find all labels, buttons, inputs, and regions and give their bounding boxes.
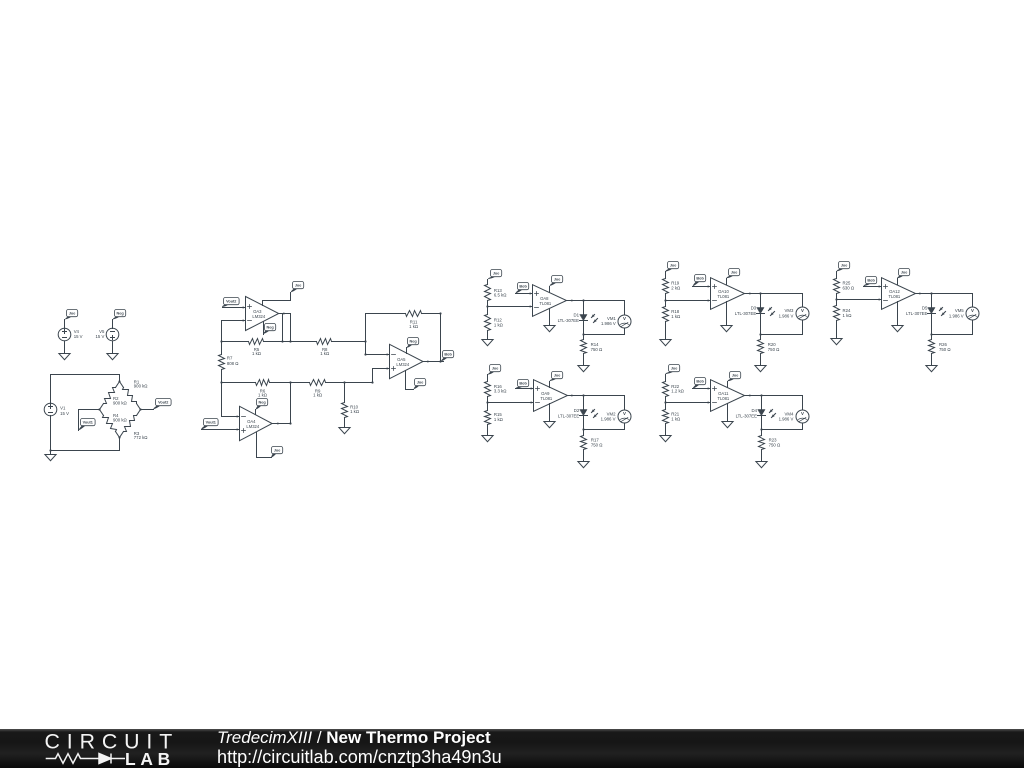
svg-text:LAB: LAB xyxy=(125,749,175,768)
ground below R24 xyxy=(831,339,842,345)
resistor R8 (1 kΩ) xyxy=(291,339,366,357)
voltmeter VM3 (1.986 V) xyxy=(761,294,810,335)
svg-text:Joe: Joe xyxy=(274,449,281,453)
wire OA11 output xyxy=(745,394,803,396)
svg-text:Bob: Bob xyxy=(444,353,452,357)
ground below OA12 xyxy=(892,326,903,332)
svg-text:750 Ω: 750 Ω xyxy=(591,443,603,448)
ground below V5 xyxy=(107,354,118,360)
svg-text:Neg: Neg xyxy=(117,312,125,316)
svg-text:772 kΩ: 772 kΩ xyxy=(134,435,149,440)
net flag Joe on R13 xyxy=(488,270,502,280)
svg-text:Joe: Joe xyxy=(417,381,424,385)
svg-text:TL081: TL081 xyxy=(717,396,730,401)
op-amp OA10 (TL081) xyxy=(711,278,745,310)
svg-text:LM324: LM324 xyxy=(396,362,409,367)
resistor R13 (6.5 k&#937;) xyxy=(485,280,508,307)
svg-text:Joe: Joe xyxy=(841,264,848,268)
svg-text:TL081: TL081 xyxy=(717,294,730,299)
voltage source V1 (15 V) xyxy=(44,403,69,416)
power stub OA3 top xyxy=(262,301,264,306)
op-amp OA4 (LM324) xyxy=(240,406,273,440)
wire node to OA10 - input xyxy=(666,299,711,301)
resistor R22 (1.2 k&#937;) xyxy=(663,375,685,403)
svg-text:1.986 V: 1.986 V xyxy=(779,313,794,318)
power stub OA10 top xyxy=(726,279,728,285)
svg-text:Bob: Bob xyxy=(696,277,704,281)
svg-text:1.986 V: 1.986 V xyxy=(601,417,616,422)
svg-text:Neg: Neg xyxy=(410,340,418,344)
svg-text:LTL-307EE: LTL-307EE xyxy=(735,311,757,316)
wire V5 to ground xyxy=(112,342,114,354)
svg-text:1 kΩ: 1 kΩ xyxy=(252,351,262,356)
net flag Vout1 into OA4 xyxy=(201,419,218,430)
ground below R26 xyxy=(926,366,937,372)
resistor R19 (2 k&#937;) xyxy=(663,272,682,301)
resistor R4 (900 kΩ, bridge bottom-left) xyxy=(100,410,128,438)
svg-text:V: V xyxy=(623,316,626,321)
wire Bob flag to OA9 + input xyxy=(516,387,534,389)
resistor R25 (630 &#937;) xyxy=(834,272,855,300)
svg-text:900 kΩ: 900 kΩ xyxy=(134,384,149,389)
resistor R16 (3.3 k&#937;) xyxy=(485,375,508,403)
wire Joe flag to OA3 V+ xyxy=(263,293,291,301)
svg-text:630 Ω: 630 Ω xyxy=(843,285,855,290)
net flag Bob on OA8 xyxy=(516,283,529,294)
logo resistor-diode symbol xyxy=(46,754,125,764)
wire Vout2 to OA3 + input xyxy=(223,306,246,308)
wire Bob flag to OA11 + input xyxy=(693,387,711,389)
ground below V1 xyxy=(45,455,56,461)
svg-text:LTL-307EE: LTL-307EE xyxy=(558,318,580,323)
svg-text:1 kΩ: 1 kΩ xyxy=(258,393,268,398)
svg-text:V: V xyxy=(623,411,626,416)
ground below R12 xyxy=(482,340,493,346)
net flag Bob on OA9 xyxy=(516,380,529,389)
wire OA8 output xyxy=(567,299,625,301)
net flag Vout1 on bridge xyxy=(79,419,95,431)
wire OA9 output xyxy=(568,394,625,396)
svg-text:D2: D2 xyxy=(574,408,580,413)
svg-text:Vout2: Vout2 xyxy=(226,300,236,304)
wire R9 to OA5 + input xyxy=(345,367,390,382)
ground below OA10 xyxy=(721,326,732,332)
svg-text:Joe: Joe xyxy=(554,374,561,378)
svg-text:750 Ω: 750 Ω xyxy=(591,347,603,352)
svg-text:Joe: Joe xyxy=(492,367,499,371)
junctions on R5-R8 line xyxy=(220,340,366,342)
svg-text:LM324: LM324 xyxy=(252,314,265,319)
LED D3 (LTL-307EE) xyxy=(735,294,775,336)
resistor R18 (1 k&#937;) xyxy=(663,301,682,340)
svg-text:1.986 V: 1.986 V xyxy=(601,321,616,326)
svg-text:Joe: Joe xyxy=(670,264,677,268)
svg-text:Joe: Joe xyxy=(69,312,76,316)
wire V1 bottom to ground xyxy=(50,416,52,455)
net flag Joe on V4 xyxy=(65,310,78,320)
resistor R12 (1 k&#937;) xyxy=(485,307,504,340)
svg-text:1.2 kΩ: 1.2 kΩ xyxy=(671,389,684,394)
junctions at bridge vertices xyxy=(98,380,141,438)
net flag Vout2 into OA3 xyxy=(222,298,239,308)
junction R7 bottom xyxy=(220,381,222,383)
resistor R7 (808 Ω) xyxy=(219,342,240,383)
power stub OA9 top xyxy=(549,382,551,388)
wire node to OA8 - input xyxy=(488,305,533,307)
svg-text:TL081: TL081 xyxy=(539,301,552,306)
junction at V1 bottom xyxy=(49,449,51,451)
svg-text:Bob: Bob xyxy=(696,380,704,384)
svg-text:Joe: Joe xyxy=(901,271,908,275)
svg-text:15 V: 15 V xyxy=(60,411,69,416)
net flag Joe on R16 xyxy=(488,365,501,375)
net flag Joe on R25 xyxy=(837,262,850,272)
junction divider node R25/R24 xyxy=(835,298,837,300)
svg-text:1 kΩ: 1 kΩ xyxy=(350,409,360,414)
op-amp OA5 (LM324) xyxy=(390,344,424,378)
svg-text:1 kΩ: 1 kΩ xyxy=(671,314,681,319)
wire V4 to ground xyxy=(64,342,66,354)
power stub OA8 top xyxy=(549,287,551,293)
wire node to OA11 - input xyxy=(666,401,711,403)
resistor R2 (900 kΩ, bridge top-left) xyxy=(100,382,128,410)
CircuitLab logo wordmark xyxy=(44,729,244,768)
svg-text:1 kΩ: 1 kΩ xyxy=(494,417,504,422)
net flag Joe on OA8 xyxy=(550,276,563,287)
svg-text:Joe: Joe xyxy=(731,271,738,275)
wire Vout1 to OA4 + input xyxy=(202,428,240,430)
svg-text:808 Ω: 808 Ω xyxy=(227,361,239,366)
resistor R11 (1 kΩ) xyxy=(366,311,441,329)
junction divider node R19/R18 xyxy=(664,299,666,301)
ground below R17 xyxy=(578,462,589,468)
ground below R23 xyxy=(756,462,767,468)
wire R11 to OA5 output xyxy=(439,312,441,362)
svg-text:LTL-307EE: LTL-307EE xyxy=(736,413,758,418)
resistor R26 (750 &#937;) xyxy=(929,335,952,366)
wire bridge left to Vout1 flag xyxy=(79,410,100,431)
svg-text:D4: D4 xyxy=(752,408,758,413)
resistor R20 (750 &#937;) xyxy=(758,335,781,366)
svg-text:Neg: Neg xyxy=(259,401,267,405)
voltmeter VM1 (1.986 V) xyxy=(584,301,632,335)
LED D5 (LTL-307EE) xyxy=(906,294,946,336)
wire OA5 V- to Joe flag xyxy=(406,371,414,390)
junction divider node R13/R12 xyxy=(486,305,488,307)
ground below OA11 xyxy=(722,422,733,428)
svg-text:LTL-307EE: LTL-307EE xyxy=(558,413,580,418)
net flag Bob on OA12 xyxy=(864,277,877,287)
net flag Bob on OA10 xyxy=(693,275,706,287)
junctions on R6-R9 line xyxy=(289,381,373,383)
resistor R9 (1 kΩ) xyxy=(291,380,345,398)
LED D2 (LTL-307EE) xyxy=(558,396,598,431)
svg-text:Bob: Bob xyxy=(867,279,875,283)
wire feedback vertical to OA5 - input xyxy=(364,314,389,356)
svg-text:V: V xyxy=(801,411,804,416)
net flag Joe on OA4 xyxy=(271,447,283,458)
net flag Joe on OA11 xyxy=(728,372,741,382)
svg-text:2 kΩ: 2 kΩ xyxy=(671,285,681,290)
svg-text:1 kΩ: 1 kΩ xyxy=(843,313,853,318)
resistor R15 (1 k&#937;) xyxy=(485,403,504,436)
ground below R20 xyxy=(755,366,766,372)
svg-text:Bob: Bob xyxy=(519,382,527,386)
resistor R24 (1 k&#937;) xyxy=(834,300,853,339)
net flag Joe on OA3 xyxy=(291,282,304,293)
wire OA12 V- to ground xyxy=(897,302,899,326)
svg-text:3.3 kΩ: 3.3 kΩ xyxy=(494,389,507,394)
svg-text:V: V xyxy=(971,308,974,313)
svg-text:Vout2: Vout2 xyxy=(158,401,168,405)
svg-text:1 kΩ: 1 kΩ xyxy=(320,351,330,356)
wire bridge bottom to V1 xyxy=(51,438,120,451)
resistor R14 (750 &#937;) xyxy=(581,335,603,366)
svg-text:TL081: TL081 xyxy=(540,396,553,401)
ground below R18 xyxy=(660,340,671,346)
wire OA3 output to R8 node xyxy=(290,314,292,342)
svg-text:750 Ω: 750 Ω xyxy=(768,347,780,352)
svg-text:1.986 V: 1.986 V xyxy=(779,417,794,422)
svg-text:15 V: 15 V xyxy=(96,334,105,339)
wire OA5 output xyxy=(423,360,444,362)
wire OA3 - input xyxy=(222,319,246,341)
wire OA12 output xyxy=(916,292,973,294)
wire Bob flag to OA10 + input xyxy=(693,285,711,287)
ground below R15 xyxy=(482,436,493,442)
power stub OA11 top xyxy=(727,382,729,388)
svg-text:Joe: Joe xyxy=(493,272,500,276)
net flag Joe on OA12 xyxy=(897,269,910,279)
wire V1 top to bridge top xyxy=(51,375,120,404)
wire OA4 - input xyxy=(222,383,240,418)
net flag Neg on V5 xyxy=(113,310,126,320)
svg-text:Joe: Joe xyxy=(732,374,739,378)
svg-text:750 Ω: 750 Ω xyxy=(939,347,951,352)
op-amp OA3 (LM324) xyxy=(246,297,279,331)
svg-text:Bob: Bob xyxy=(519,285,527,289)
resistor R3 (772 kΩ, bridge bottom-right) xyxy=(120,410,149,441)
op-amp OA12 (TL081) xyxy=(882,278,916,310)
svg-text:Joe: Joe xyxy=(554,278,561,282)
net flag Joe on OA10 xyxy=(726,269,739,279)
resistor R23 (750 &#937;) xyxy=(759,430,781,462)
svg-text:900 kΩ: 900 kΩ xyxy=(113,418,128,423)
resistor R10 (1 kΩ) xyxy=(342,383,360,428)
wire bridge right to Vout2 flag xyxy=(141,409,154,411)
net flag Neg on OA3 xyxy=(263,324,276,335)
wire OA10 output xyxy=(745,292,803,294)
power stub OA3 bottom xyxy=(263,322,265,335)
ground below R14 xyxy=(578,366,589,372)
ground below V4 xyxy=(59,354,70,360)
svg-text:Joe: Joe xyxy=(295,284,302,288)
net flag Vout2 on bridge xyxy=(153,399,171,410)
ground below R10 xyxy=(339,428,350,434)
wire OA10 V- to ground xyxy=(726,302,728,326)
footer title text xyxy=(217,728,502,767)
wire OA11 V- to ground xyxy=(727,404,729,422)
resistor R5 (1 kΩ) xyxy=(222,339,291,357)
svg-text:1 kΩ: 1 kΩ xyxy=(494,322,504,327)
svg-text:1 kΩ: 1 kΩ xyxy=(313,393,323,398)
op-amp OA8 (TL081) xyxy=(533,285,567,317)
svg-text:1 kΩ: 1 kΩ xyxy=(409,324,419,329)
svg-text:V: V xyxy=(801,308,804,313)
wire node to OA12 - input xyxy=(837,298,882,300)
net flag Joe on OA5 xyxy=(414,379,426,390)
net flag Joe on OA9 xyxy=(550,372,563,382)
svg-text:LTL-307EE: LTL-307EE xyxy=(906,311,928,316)
svg-text:1.986 V: 1.986 V xyxy=(949,313,964,318)
wire Bob flag to OA8 + input xyxy=(516,292,533,294)
svg-text:V1: V1 xyxy=(60,405,66,410)
svg-text:15 V: 15 V xyxy=(74,334,83,339)
wire Bob flag to OA12 + input xyxy=(864,285,882,287)
wire OA3 output xyxy=(280,312,291,314)
voltmeter VM4 (1.986 V) xyxy=(762,396,810,430)
svg-text:Neg: Neg xyxy=(267,326,275,330)
net flag Joe on R19 xyxy=(665,262,678,272)
LED D1 (LTL-307EE) xyxy=(558,301,598,336)
wire OA9 V- to ground xyxy=(549,404,551,422)
resistor R21 (1 k&#937;) xyxy=(663,403,682,436)
wire OA3 output to R5 node xyxy=(282,314,284,342)
op-amp OA11 (TL081) xyxy=(711,380,745,412)
power stub OA4 top xyxy=(255,410,257,415)
voltmeter VM2 (1.986 V) xyxy=(584,396,632,430)
LED D4 (LTL-307EE) xyxy=(736,396,776,431)
net flag Joe on R22 xyxy=(665,365,679,375)
svg-text:1 kΩ: 1 kΩ xyxy=(671,416,681,421)
voltage source V5 (15 V) xyxy=(96,320,119,341)
svg-text:LM324: LM324 xyxy=(246,424,259,429)
wire OA4 output to R6 line xyxy=(273,383,292,425)
resistor R1 (900 kΩ, bridge top-right) xyxy=(120,379,149,409)
net flag Bob on OA11 xyxy=(693,378,706,389)
wire OA8 V- to ground xyxy=(549,309,551,326)
resistor R6 (1 kΩ) xyxy=(222,380,291,398)
voltmeter VM5 (1.986 V) xyxy=(932,294,980,335)
net flag Bob on OA5 output xyxy=(441,351,454,362)
svg-text:6.5 kΩ: 6.5 kΩ xyxy=(494,293,507,298)
junction divider node R16/R15 xyxy=(486,401,488,403)
svg-text:D3: D3 xyxy=(751,305,757,310)
power stub OA12 top xyxy=(897,279,899,285)
voltage source V4 (15 V) xyxy=(58,320,82,341)
resistor R17 (750 &#937;) xyxy=(581,430,604,462)
ground below R21 xyxy=(660,436,671,442)
net flag Neg on OA4 xyxy=(256,399,268,410)
svg-text:D5: D5 xyxy=(922,305,928,310)
junction divider node R22/R21 xyxy=(664,401,666,403)
op-amp OA9 (TL081) xyxy=(534,380,568,412)
svg-text:750 Ω: 750 Ω xyxy=(769,443,781,448)
svg-text:Joe: Joe xyxy=(671,367,678,371)
wire OA4 V- to Joe flag xyxy=(257,433,272,458)
svg-text:900 kΩ: 900 kΩ xyxy=(113,401,128,406)
svg-text:Vout1: Vout1 xyxy=(206,421,216,425)
ground below OA9 xyxy=(544,422,555,428)
power stub OA5 top xyxy=(406,348,408,354)
svg-text:D1: D1 xyxy=(574,313,580,318)
ground below OA8 xyxy=(544,326,555,332)
svg-text:TL081: TL081 xyxy=(888,294,901,299)
svg-text:Vout1: Vout1 xyxy=(83,421,93,425)
net flag Neg on OA5 xyxy=(407,338,419,348)
wire node to OA9 - input xyxy=(488,401,534,403)
